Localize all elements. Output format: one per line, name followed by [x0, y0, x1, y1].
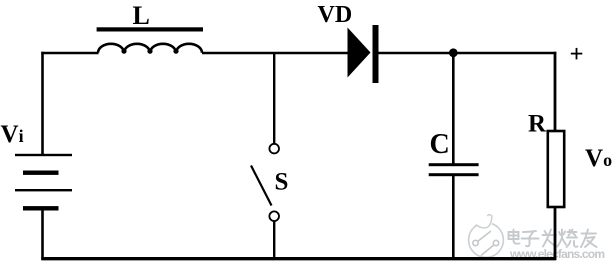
battery Vi plate 2 short thick — [23, 171, 59, 175]
watermark logo disc — [469, 208, 504, 257]
svg-text:VD: VD — [318, 2, 353, 28]
wire right vertical lower — [554, 207, 557, 260]
svg-text:C: C — [430, 129, 450, 160]
inductor winding junction dots — [121, 49, 178, 54]
watermark char dian — [509, 230, 520, 244]
label plus — [571, 48, 583, 60]
watermark logo rings and links — [473, 231, 499, 256]
wire left vertical upper — [41, 52, 44, 155]
wire top rail left segment — [41, 52, 98, 54]
wire capacitor vertical lower — [452, 176, 455, 260]
watermark char fa — [543, 230, 557, 247]
svg-text:Vo: Vo — [585, 145, 612, 172]
capacitor C top plate — [429, 163, 479, 166]
watermark char you — [581, 230, 597, 248]
watermark char shao — [558, 230, 578, 248]
diode VD triangle — [348, 28, 371, 78]
svg-text:S: S — [275, 169, 289, 196]
switch S lever — [251, 166, 272, 206]
switch S top terminal circle — [269, 144, 279, 154]
inductor L winding — [98, 44, 202, 53]
wire switch vertical lower — [273, 222, 275, 261]
resistor R body — [548, 131, 564, 207]
switch S bottom terminal circle — [269, 211, 279, 221]
battery Vi plate 3 long — [15, 189, 72, 191]
capacitor C bottom plate — [429, 173, 479, 176]
wire bottom rail — [41, 257, 556, 260]
inductor L core bar — [97, 27, 203, 31]
wire right vertical upper — [554, 52, 557, 132]
wire top rail middle segment — [202, 52, 349, 54]
diode VD cathode bar — [373, 25, 379, 83]
svg-text:Vi: Vi — [1, 121, 24, 148]
battery Vi plate 1 long — [15, 154, 72, 156]
wire switch vertical upper — [273, 53, 275, 144]
battery Vi plate 4 short thick — [23, 206, 59, 210]
node junction dot at capacitor — [449, 48, 458, 57]
svg-text:L: L — [133, 1, 150, 30]
wire capacitor vertical upper — [452, 53, 455, 164]
svg-text:R: R — [528, 111, 547, 138]
wire top rail right segment — [379, 52, 557, 54]
watermark char zi — [522, 231, 539, 246]
wire left vertical lower — [41, 210, 44, 260]
